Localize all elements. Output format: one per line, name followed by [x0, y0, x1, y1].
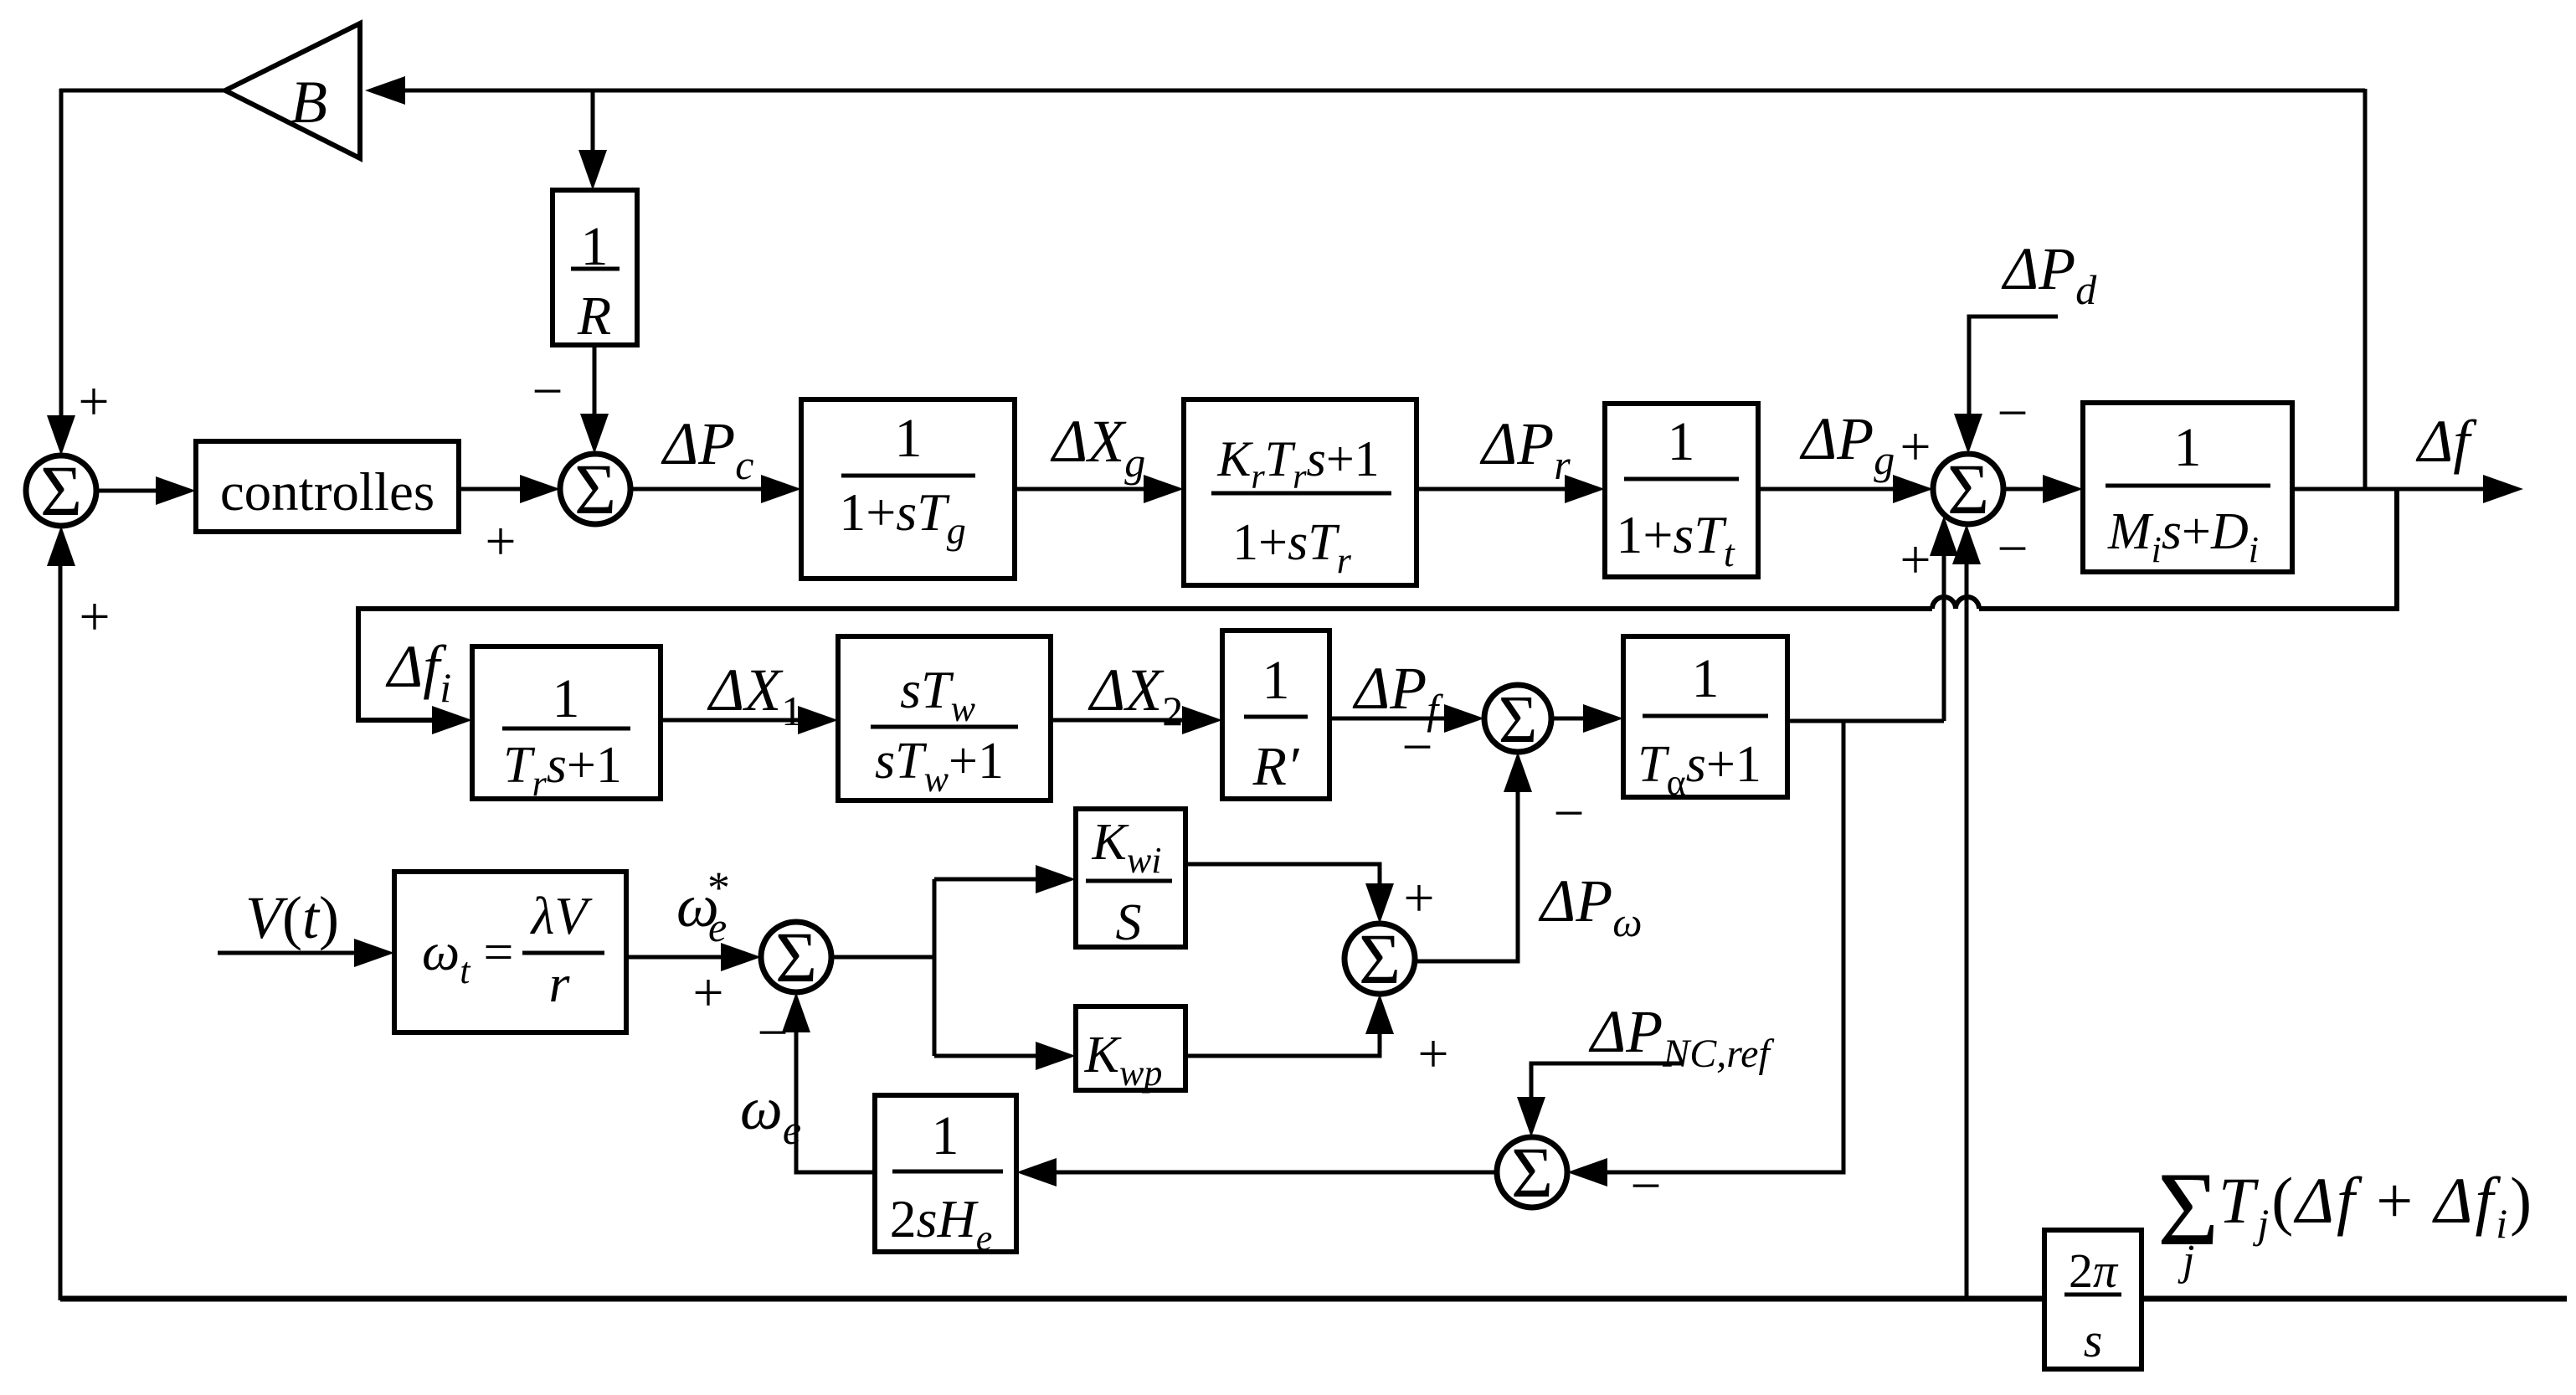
svg-text:V(t): V(t) [245, 884, 339, 951]
svg-text:Σ: Σ [40, 450, 82, 531]
svg-text:+: + [1900, 416, 1931, 477]
arrow into S1 top [47, 415, 75, 456]
svg-text:+: + [692, 962, 723, 1023]
svg-text:−: − [1997, 383, 2028, 444]
arrow main sum to G4 [2043, 475, 2083, 503]
arrow into 1/R [578, 150, 607, 190]
svg-text:−: − [1630, 1156, 1661, 1217]
wire S4 output [831, 955, 934, 960]
svg-text:ΔPNC,ref: ΔPNC,ref [1588, 998, 1774, 1076]
svg-text:−: − [1401, 717, 1432, 778]
svg-text:1: 1 [1668, 411, 1695, 472]
arrow we into S4 [782, 992, 810, 1032]
svg-text:Kwp: Kwp [1084, 1027, 1163, 1094]
svg-text:+: + [79, 586, 110, 647]
svg-text:ωt =: ωt = [422, 922, 514, 991]
svg-text:ΔPd: ΔPd [2001, 235, 2097, 313]
svg-text:−: − [1553, 783, 1584, 844]
wire split to Kwi [934, 878, 1037, 882]
arrow dPd into main sum [1954, 414, 1982, 454]
block R2 sTw/(sTw+1) [838, 636, 1051, 800]
arrow dPnc into S6 [1517, 1097, 1545, 1137]
svg-text:−: − [1997, 518, 2028, 579]
svg-text:−: − [757, 1002, 788, 1063]
svg-text:Tj(Δf + Δfi): Tj(Δf + Δfi) [2219, 1164, 2534, 1247]
svg-text:+: + [1403, 867, 1434, 929]
wire R1 to R2 [661, 718, 801, 723]
arrow G1 to G2 [1144, 475, 1184, 503]
arrow S3 to R4 [1583, 704, 1623, 733]
block 1/R [553, 190, 637, 347]
wire R3 to sum S3 [1329, 717, 1447, 721]
wire split to Kwp [934, 1054, 1037, 1058]
arrow into S4 [721, 943, 761, 971]
sum S3 [1484, 683, 1551, 757]
wire controlles to S2 [459, 487, 523, 492]
block R4 1/(Tas+1) [1623, 636, 1787, 803]
svg-text:1+sTt: 1+sTt [1616, 505, 1735, 574]
svg-text:ΔPg: ΔPg [1799, 405, 1895, 483]
wire He to S4 [796, 1031, 875, 1172]
arrow into S6 from right [1567, 1158, 1607, 1187]
arrow 1/R into S2 [580, 414, 609, 454]
arrow S1 to controlles [156, 476, 196, 505]
svg-text:+: + [1900, 529, 1931, 590]
svg-text:2sHe: 2sHe [890, 1189, 993, 1259]
arrow S6 into He block [1016, 1158, 1057, 1187]
svg-text:sTw: sTw [900, 660, 976, 729]
sum main [1933, 449, 2003, 529]
svg-text:−: − [532, 361, 563, 422]
arrow controlles to S2 [520, 475, 560, 503]
svg-text:1: 1 [2174, 417, 2202, 478]
svg-text:ΔPc: ΔPc [661, 410, 753, 488]
wire drop to 1/R [591, 90, 595, 152]
svg-text:KrTrs+1: KrTrs+1 [1216, 431, 1379, 497]
arrow into B triangle [365, 76, 405, 105]
block Kwi/S [1076, 809, 1185, 951]
block G4 1/(Mis+Di) [2083, 403, 2292, 572]
sum S2 [560, 449, 630, 529]
block G3 1/(1+sTt) [1605, 404, 1758, 577]
svg-text:S: S [1116, 894, 1142, 951]
arrow V(t) into wt block [354, 939, 394, 967]
svg-text:1: 1 [895, 408, 923, 469]
wire line A up to main sum [1942, 553, 1946, 721]
block G2 (KrTrs+1)/(1+sTr) [1184, 399, 1417, 585]
arrow into S3 [1444, 704, 1484, 733]
svg-text:ω*e: ω*e [676, 862, 730, 950]
wire 2pi/s right line [2142, 1296, 2567, 1302]
arrow line A into main sum [1930, 516, 1958, 556]
svg-text:r: r [549, 954, 571, 1013]
svg-text:+: + [78, 371, 109, 432]
block R1 1/(Trs+1) [472, 646, 661, 804]
amplifier B triangle [225, 23, 360, 158]
svg-text:Σ: Σ [574, 449, 616, 529]
svg-text:1: 1 [1692, 648, 1720, 709]
arrow dPw into S3 [1504, 752, 1532, 792]
wire G1 to G2 [1015, 487, 1147, 492]
wire S1 to controlles [96, 489, 159, 493]
arrow line B into main sum [1952, 524, 1981, 564]
wire row2 feedback left [358, 609, 1932, 720]
svg-text:Σ: Σ [1359, 919, 1401, 999]
svg-text:Σ: Σ [1511, 1132, 1553, 1212]
wire S2 to block G1 [630, 487, 764, 492]
arrow into Kwp [1036, 1042, 1076, 1070]
svg-text:Tαs+1: Tαs+1 [1638, 736, 1761, 803]
block controlles [196, 441, 459, 532]
block 2pi/s [2044, 1230, 2142, 1369]
sum S5 [1345, 919, 1415, 999]
wire R4 output [1787, 719, 1944, 723]
wire dPw S5 to S3 [1415, 790, 1518, 961]
svg-text:Σ: Σ [1947, 449, 1989, 529]
arrow Kwp into S5 [1365, 994, 1394, 1034]
wire S3 to R4 [1551, 717, 1586, 721]
wire top feedback line [402, 89, 2365, 93]
svg-text:2π: 2π [2069, 1243, 2119, 1298]
svg-text:+: + [1417, 1023, 1448, 1084]
arrow into Kwi [1036, 865, 1076, 893]
arrow G2 to G3 [1565, 475, 1605, 503]
svg-text:Σ: Σ [775, 917, 817, 997]
svg-text:1+sTg: 1+sTg [839, 482, 966, 552]
wire 1/R to sum S2 [593, 345, 597, 416]
svg-text:ΔPω: ΔPω [1538, 867, 1643, 945]
arrow S2 to G1 [761, 475, 801, 503]
sum S4 [761, 917, 831, 997]
svg-text:Mis+Di: Mis+Di [2107, 503, 2259, 570]
svg-text:ωe: ωe [740, 1075, 801, 1153]
svg-text:1: 1 [932, 1105, 959, 1166]
arrow into R3 [1182, 706, 1222, 734]
svg-text:R′: R′ [1252, 736, 1300, 797]
svg-text:ΔXg: ΔXg [1050, 408, 1145, 486]
wire G4 output [2292, 487, 2486, 492]
wire left vertical into sum S1 [59, 89, 64, 419]
wire Kwi to S5 [1185, 864, 1380, 885]
svg-text:Σ: Σ [1499, 683, 1538, 757]
wire wt block output [626, 955, 722, 960]
svg-text:+: + [485, 511, 516, 572]
wire Kwp to S5 [1185, 1032, 1380, 1056]
sum S1 [26, 450, 96, 531]
arrow into R2 [798, 706, 838, 734]
svg-text:s: s [2084, 1313, 2103, 1367]
arrow G3 to main sum [1893, 475, 1933, 503]
svg-text:controlles: controlles [220, 462, 434, 522]
svg-text:1: 1 [1262, 650, 1290, 711]
svg-text:1+sTr: 1+sTr [1232, 514, 1352, 581]
block G1 1/(1+sTg) [801, 399, 1015, 579]
wire R2 to R3 [1051, 718, 1185, 723]
svg-text:Δfi: Δfi [385, 633, 451, 711]
svg-text:B: B [291, 69, 327, 136]
wire branch down to S6 [1605, 721, 1843, 1172]
svg-text:1: 1 [553, 668, 580, 729]
svg-text:Δf: Δf [2415, 408, 2477, 475]
arrow into S1 bottom [47, 526, 75, 566]
svg-text:ΔPr: ΔPr [1479, 410, 1571, 488]
wire B output to left [59, 89, 228, 93]
wire G3 to main sum [1758, 487, 1896, 492]
wire dPnc stub [1531, 1063, 1683, 1099]
svg-text:ΔX2: ΔX2 [1087, 656, 1183, 734]
arrow df output [2483, 475, 2523, 503]
wire dPd stub [1969, 317, 2058, 417]
wire V(t) input [218, 951, 356, 955]
svg-text:ΔX1: ΔX1 [707, 656, 802, 734]
wire splitter vertical [933, 879, 937, 1056]
wire main sum to G4 [2003, 487, 2046, 492]
block wt=lV/r [394, 872, 626, 1032]
wire left edge up [59, 564, 63, 1300]
wire bottom line [60, 1296, 2044, 1302]
svg-text:Trs+1: Trs+1 [503, 737, 622, 804]
svg-text:sTw+1: sTw+1 [875, 733, 1004, 800]
wire output down branch [1979, 489, 2397, 609]
wire feedback up branch [2363, 89, 2368, 489]
arrow into R1 [432, 706, 472, 734]
block 1/(2sHe) [875, 1095, 1016, 1259]
wire line B main sum to bottom [1965, 563, 1969, 1299]
svg-text:λV: λV [530, 886, 594, 945]
arrow Kwi into S5 [1365, 883, 1394, 924]
wire jump over verticals [1932, 597, 1979, 609]
wire S6 to block He [1055, 1171, 1497, 1175]
block Kwp [1076, 1006, 1185, 1094]
svg-text:R: R [577, 286, 611, 347]
sum S6 [1497, 1132, 1567, 1212]
svg-text:Kwi: Kwi [1092, 814, 1162, 881]
wire G2 to G3 [1417, 487, 1568, 492]
block R3 1/R' [1222, 631, 1329, 799]
